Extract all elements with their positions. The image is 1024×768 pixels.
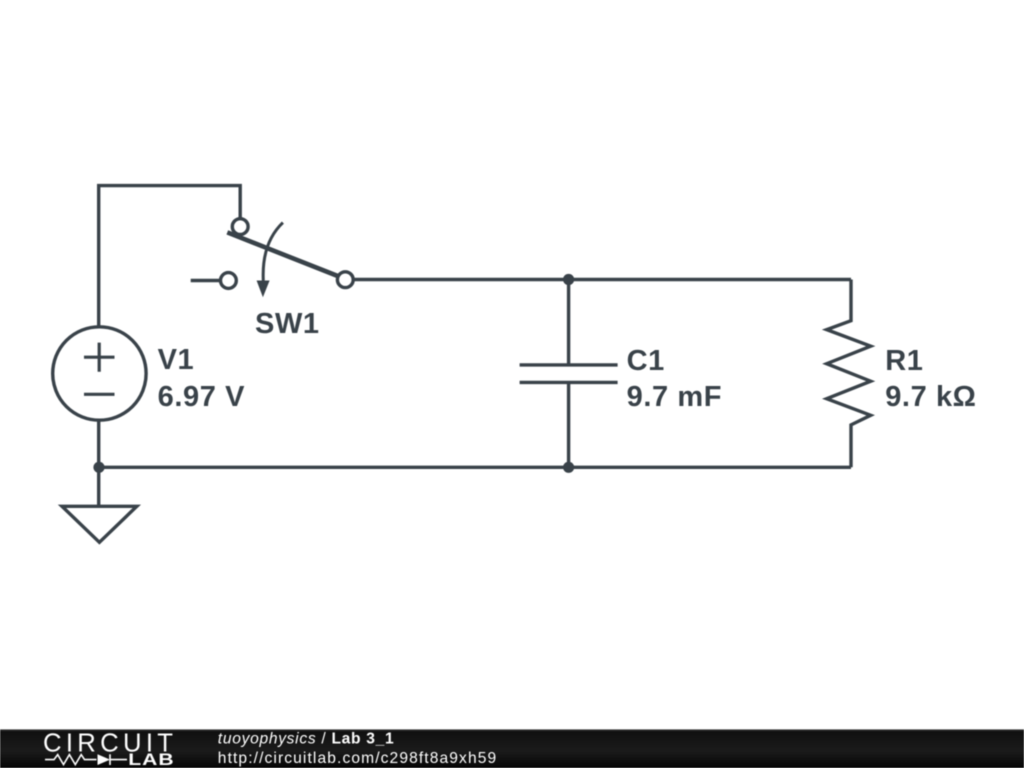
wire stub at SW1 open terminal	[191, 279, 221, 282]
node ground junction dot	[93, 462, 104, 473]
node A junction dot	[563, 274, 574, 285]
wire from node A to R1 top	[569, 278, 851, 281]
svg-text:R1: R1	[885, 345, 923, 377]
logo resistor-diode glyph	[45, 754, 127, 765]
wire from V1 bottom to ground	[97, 420, 100, 506]
svg-text:9.7 mF: 9.7 mF	[627, 381, 722, 413]
resistor R1	[827, 280, 871, 468]
svg-text:9.7 kΩ: 9.7 kΩ	[885, 381, 976, 413]
switch SW1	[221, 219, 354, 298]
voltage source V1	[53, 327, 146, 420]
wire capacitor C1 bottom lead	[567, 382, 570, 467]
ground	[62, 506, 137, 542]
wire bottom net from V1 to R1 bottom	[99, 466, 851, 469]
capacitor C1	[520, 365, 618, 383]
footer bar	[0, 729, 1024, 768]
svg-text:tuoyophysics / Lab 3_1: tuoyophysics / Lab 3_1	[218, 731, 395, 748]
wire from SW1 right terminal to node A	[354, 278, 569, 281]
node bottom junction dot at C1	[563, 462, 574, 473]
svg-text:SW1: SW1	[255, 308, 320, 340]
svg-text:http://circuitlab.com/c298ft8a: http://circuitlab.com/c298ft8a9xh59	[218, 750, 497, 767]
wire from V1 top to switch SW1 top terminal	[99, 186, 241, 327]
svg-text:6.97 V: 6.97 V	[158, 381, 245, 413]
svg-text:V1: V1	[158, 344, 195, 376]
svg-text:C1: C1	[627, 345, 665, 377]
wire capacitor C1 top lead	[567, 280, 570, 365]
svg-text:LAB: LAB	[128, 751, 174, 768]
